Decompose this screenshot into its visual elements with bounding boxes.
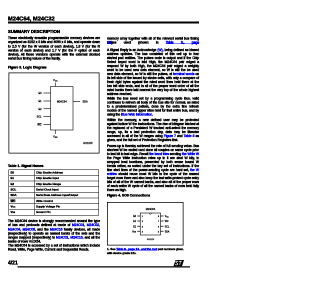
chip notch: [149, 213, 152, 214]
row E0: [9, 170, 99, 215]
note under figure: [107, 247, 199, 255]
pinout svg: [107, 202, 182, 244]
left paragraph below table: [8, 219, 100, 244]
row VCC: [9, 204, 99, 210]
svg-text:E0: E0: [38, 92, 42, 95]
pin WC wire: [44, 123, 51, 126]
pin 7 stub: [161, 220, 164, 223]
header rule: [8, 22, 199, 24]
logic diagram svg: [9, 73, 99, 153]
svg-text:VCC: VCC: [53, 78, 58, 83]
svg-text:8: 8: [158, 216, 160, 218]
svg-text:7: 7: [158, 221, 160, 223]
svg-text:E1: E1: [133, 221, 137, 223]
pin 8 stub: [161, 215, 164, 218]
svg-text:6: 6: [158, 226, 160, 228]
svg-text:VSS: VSS: [132, 231, 137, 233]
svg-text:WC: WC: [37, 124, 41, 127]
svg-text:3: 3: [142, 226, 144, 228]
row E1: [9, 175, 99, 181]
svg-text:SDA: SDA: [83, 101, 88, 104]
left paragraph 1: [8, 36, 100, 61]
pin 1 stub: [137, 215, 140, 218]
pin 5 stub: [161, 230, 164, 233]
pin 2 stub: [137, 220, 140, 223]
heading SUMMARY DESCRIPTION: [8, 29, 60, 34]
pin 6 stub: [161, 225, 164, 228]
svg-text:SCL: SCL: [165, 226, 170, 228]
pin SDA wire: [73, 100, 80, 103]
IC rect U1: [51, 87, 74, 131]
pin E1 wire: [44, 100, 51, 103]
svg-text:SCL: SCL: [37, 116, 42, 119]
left paragraph 2 below table: [8, 244, 100, 252]
right paragraph 2: [107, 48, 199, 96]
svg-text:M24C64: M24C64: [57, 100, 67, 104]
svg-text:AI01110: AI01110: [147, 238, 155, 241]
svg-text:VCC: VCC: [165, 216, 170, 218]
chip body: [140, 213, 160, 235]
pin WC overbar: [38, 122, 42, 124]
pin 3 stub: [137, 225, 140, 228]
svg-text:1: 1: [142, 216, 144, 218]
svg-text:VSS: VSS: [53, 135, 58, 140]
figure 4 label: [107, 193, 150, 197]
figure 4 box: [107, 202, 184, 246]
footer rule: [18, 266, 191, 267]
pin E2 wire: [44, 108, 51, 111]
right paragraph 5: [107, 144, 199, 192]
footer page number: [8, 260, 18, 266]
table 1: [9, 170, 100, 216]
svg-text:5: 5: [158, 231, 160, 233]
svg-text:E2: E2: [133, 226, 137, 228]
pin 4 stub: [137, 230, 140, 233]
row SDA: [9, 192, 99, 198]
VCC stem wire: [54, 83, 57, 87]
row VSS: [9, 209, 99, 215]
svg-text:AI01110B: AI01110B: [83, 142, 93, 145]
svg-text:WC: WC: [165, 221, 169, 223]
figure 3 label: [8, 66, 46, 70]
svg-text:2: 2: [142, 221, 144, 223]
table 1 label: [8, 164, 43, 168]
row E2: [9, 181, 99, 187]
pin E0 wire: [44, 92, 51, 95]
row SCL: [9, 187, 99, 193]
row WC: [9, 198, 99, 204]
svg-text:E1: E1: [38, 100, 42, 103]
right paragraph 4: [107, 118, 199, 142]
svg-text:E0: E0: [133, 216, 137, 218]
ST logo: [174, 260, 185, 267]
right fragment continuing paragraph: [107, 37, 199, 45]
svg-text:M24C64: M24C64: [146, 208, 156, 211]
figure 3 box: [9, 73, 100, 154]
VSS stem wire: [54, 130, 57, 134]
svg-text:E2: E2: [38, 108, 42, 111]
svg-text:SDA: SDA: [165, 230, 170, 233]
header part number: [8, 15, 55, 22]
svg-text:4: 4: [142, 231, 144, 233]
pin SCL wire: [44, 115, 51, 118]
right paragraph 3: [107, 96, 199, 116]
